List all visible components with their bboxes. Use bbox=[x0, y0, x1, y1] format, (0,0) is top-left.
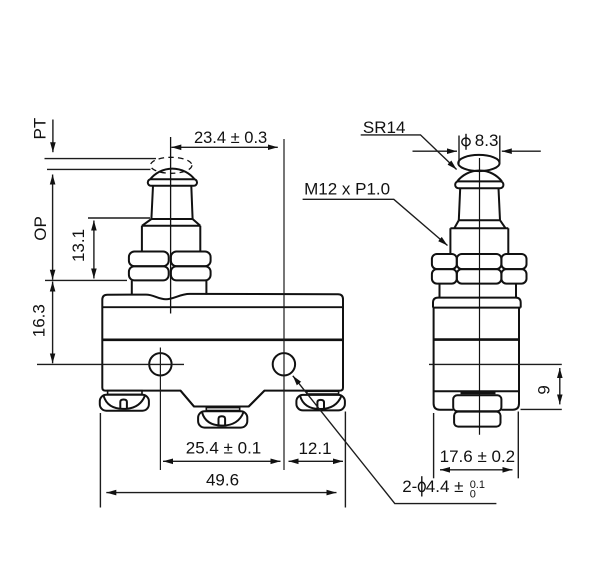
hole centerline horizontal bbox=[37, 363, 184, 365]
free position line upper bbox=[45, 158, 157, 160]
hex nut row2 facet left bbox=[432, 269, 457, 284]
13.1 dimension line bbox=[93, 221, 95, 279]
12.1 dimension line bbox=[289, 460, 344, 462]
hex nut row2 right bbox=[171, 266, 211, 280]
mounting hole left bbox=[149, 353, 171, 375]
hex nut row1 facet left bbox=[432, 254, 457, 269]
svg-text:23.4 ± 0.3: 23.4 ± 0.3 bbox=[194, 129, 267, 147]
right view centerline bbox=[479, 158, 481, 435]
hex nut row2 left bbox=[129, 266, 169, 280]
middle screw head bbox=[198, 411, 247, 427]
phi8.3 arrow right bbox=[502, 150, 541, 152]
left screw head bbox=[100, 395, 149, 411]
svg-text:4.4 ±: 4.4 ± bbox=[426, 477, 464, 496]
17.6 extension line right bbox=[517, 412, 519, 479]
49.6 dimension line bbox=[106, 492, 336, 494]
phi symbol of 8.3 bbox=[462, 134, 470, 150]
middle terminal plate bbox=[206, 408, 239, 411]
terminal plate bar bbox=[461, 391, 496, 394]
svg-text:17.6 ± 0.2: 17.6 ± 0.2 bbox=[440, 447, 516, 466]
svg-text:SR14: SR14 bbox=[363, 118, 406, 137]
body seam line upper bbox=[102, 306, 343, 308]
PT arrow bbox=[52, 120, 54, 153]
neck bbox=[459, 188, 500, 220]
svg-text:M12 x P1.0: M12 x P1.0 bbox=[304, 180, 390, 199]
9 extension line top bbox=[429, 363, 562, 365]
body bottom seam bbox=[434, 390, 519, 392]
plunger cap band bbox=[148, 179, 197, 186]
main body bbox=[434, 308, 519, 410]
cap band bbox=[455, 181, 503, 188]
bottom nut row1 bbox=[453, 395, 501, 411]
body seam bbox=[434, 338, 519, 341]
svg-text:OP: OP bbox=[31, 216, 50, 241]
right screw head bbox=[296, 395, 345, 411]
plunger neck bbox=[151, 186, 192, 219]
threaded bushing step bbox=[142, 226, 200, 251]
cap dome arc bbox=[457, 171, 502, 182]
hole centerline vertical left bbox=[159, 348, 161, 471]
phi8.3 extension line right bbox=[499, 136, 501, 164]
svg-text:12.1: 12.1 bbox=[298, 439, 331, 458]
SR14 leader bbox=[361, 135, 457, 170]
svg-text:8.3: 8.3 bbox=[475, 131, 499, 150]
screw terminals left view bbox=[100, 391, 345, 428]
svg-text:2-: 2- bbox=[402, 477, 417, 496]
9 extension line bottom bbox=[521, 408, 562, 410]
left terminal plate bbox=[108, 391, 142, 395]
hex nut row1 left bbox=[129, 252, 169, 267]
dashed free-position ellipse bbox=[151, 157, 192, 173]
svg-text:16.3: 16.3 bbox=[30, 304, 49, 337]
svg-text:0: 0 bbox=[470, 489, 476, 501]
hex nut row2 facet mid bbox=[457, 269, 502, 284]
49.6 extension line left bbox=[99, 413, 101, 508]
svg-text:9: 9 bbox=[535, 385, 554, 394]
hex nut row2 facet right bbox=[501, 269, 526, 284]
left screw dish arc bbox=[104, 396, 146, 409]
plunger dome cap bbox=[150, 169, 195, 180]
tab diagonal left bbox=[181, 391, 195, 407]
right screw dish arc bbox=[300, 396, 342, 409]
plunger centerline bbox=[170, 137, 172, 314]
threaded bushing step bbox=[450, 228, 508, 254]
16.3 dimension line bbox=[52, 282, 54, 364]
svg-text:13.1: 13.1 bbox=[69, 229, 88, 262]
svg-text:49.6: 49.6 bbox=[206, 471, 239, 490]
13.1 extension line top bbox=[88, 217, 150, 219]
body bottom tab diagonals (overdraw) bbox=[181, 391, 265, 407]
mounting hole right bbox=[273, 353, 295, 375]
shoulder band bbox=[433, 298, 521, 308]
phi8.3 arrow left bbox=[413, 150, 458, 152]
right screw slot bbox=[317, 400, 324, 410]
plunger flare shoulder bbox=[142, 219, 200, 226]
extension line right through hole bbox=[283, 139, 285, 470]
shared extension line nut bottom bbox=[45, 279, 127, 281]
hex nut row1 right bbox=[171, 252, 211, 267]
mushroom button head bbox=[458, 155, 499, 171]
hex nut row1 facet mid bbox=[457, 254, 502, 269]
hex nut row1 facet right bbox=[501, 254, 526, 269]
23.4 dimension line bbox=[171, 146, 277, 148]
25.4 dimension line bbox=[163, 460, 281, 462]
flare shoulder bbox=[450, 220, 508, 228]
svg-text:PT: PT bbox=[30, 118, 49, 140]
svg-text:25.4 ± 0.1: 25.4 ± 0.1 bbox=[186, 439, 262, 458]
right terminal plate bbox=[307, 391, 339, 394]
free position line lower bbox=[47, 168, 151, 170]
middle screw slot bbox=[219, 416, 226, 426]
lower bushing collar bbox=[132, 281, 207, 295]
49.6 extension line right bbox=[344, 412, 346, 508]
M12 leader bbox=[303, 199, 448, 245]
body seam line lower bbox=[102, 338, 343, 341]
OP dimension line bbox=[52, 175, 54, 280]
9 dimension line bbox=[559, 368, 561, 404]
17.6 dimension line bbox=[440, 469, 513, 471]
tab diagonal right bbox=[249, 391, 265, 407]
phi8.3 extension line left bbox=[458, 136, 460, 164]
phi symbol of 2-phi4.4 bbox=[418, 476, 425, 496]
collar below nut bbox=[440, 284, 517, 298]
middle screw dish arc bbox=[202, 412, 244, 425]
left screw slot bbox=[120, 400, 127, 410]
17.6 extension line left bbox=[433, 413, 435, 478]
leader line 2-phi4.4 bbox=[293, 376, 497, 504]
switch body outline bbox=[102, 294, 343, 407]
bottom nut row2 bbox=[454, 412, 500, 427]
